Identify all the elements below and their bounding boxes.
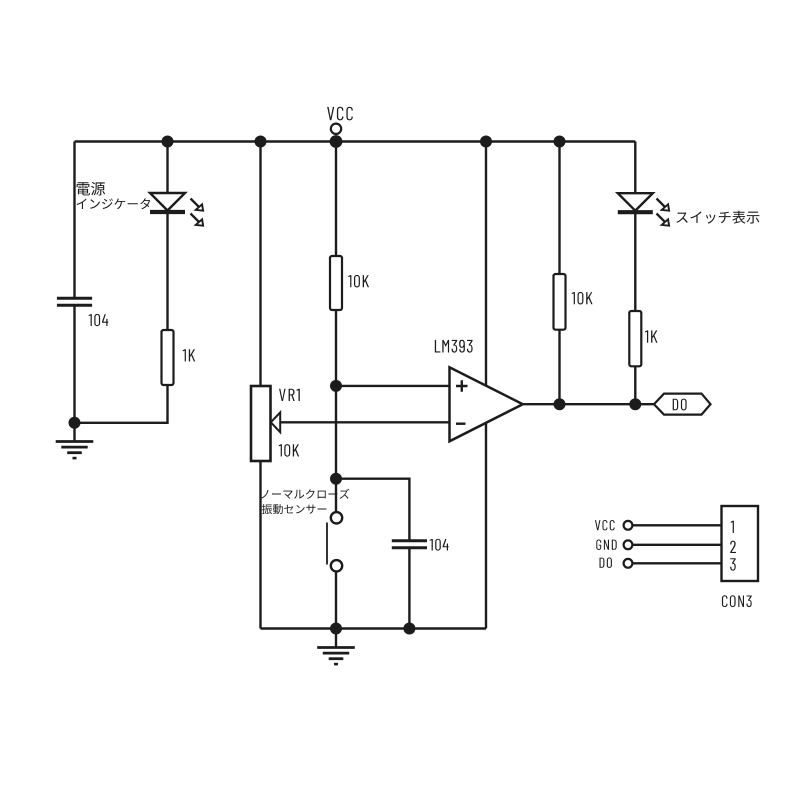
op-amp inverting (-) input mark bbox=[456, 423, 466, 425]
wire rail to VR1 top bbox=[259, 142, 261, 387]
potentiometer VR1 body bbox=[251, 386, 271, 461]
wire rail to R2 top bbox=[335, 142, 337, 257]
pin circle DO bbox=[624, 559, 633, 568]
wire C2 bottom to bottom rail bbox=[408, 548, 410, 629]
wire ground stub bottom bbox=[335, 629, 337, 648]
node junction rail-LED1 bbox=[162, 136, 174, 148]
pin circle GND bbox=[624, 540, 633, 549]
wire LED1 anode (rail to D1) bbox=[166, 142, 168, 195]
ref label LM393 (U1) bbox=[435, 340, 473, 353]
capacitor C2 (104) bbox=[392, 539, 427, 542]
ref label VR1 bbox=[279, 389, 300, 401]
pin label VCC (CON3 pin1) bbox=[595, 520, 615, 530]
wire R3 bottom to output node bbox=[558, 330, 560, 405]
LED D1 light arrows bbox=[191, 199, 200, 208]
value label 10K (VR1) bbox=[279, 444, 299, 457]
pin circle VCC bbox=[624, 521, 633, 530]
LED D2 switch indicator bbox=[618, 193, 653, 211]
wire VCC power rail (top) bbox=[75, 140, 636, 142]
value label 104 (C1) bbox=[89, 314, 109, 326]
vibration sensor SW1 bottom contact bbox=[331, 560, 342, 571]
node junction rail-VR1 bbox=[255, 136, 267, 148]
vibration sensor SW1 lever bbox=[326, 523, 328, 565]
pin label DO (CON3 pin3) bbox=[600, 558, 612, 568]
value label 1K (R4) bbox=[645, 330, 657, 342]
wire D2 cathode to R4 bbox=[634, 214, 636, 311]
value label 1K (R1) bbox=[183, 349, 195, 361]
node junction rail-opamp bbox=[480, 136, 492, 148]
wire CON3 pin2 (GND) bbox=[633, 544, 722, 546]
node junction C2-ground bbox=[403, 623, 415, 635]
node junction rail-VCC bbox=[330, 135, 343, 148]
wire op-amp power (V+ to V-) bbox=[485, 142, 487, 629]
ground symbol bottom bbox=[317, 646, 355, 649]
resistor R3 10K bbox=[554, 274, 566, 330]
wire VR1 bottom to bottom rail bbox=[259, 461, 261, 629]
label 振動センサー (vibration sensor) bbox=[262, 504, 327, 514]
value label 10K (R2) bbox=[348, 275, 369, 288]
port tag DO (output) bbox=[654, 394, 711, 415]
label スイッチ表示 (switch indicator) bbox=[676, 211, 759, 224]
wire R1 bottom to ground node bbox=[75, 385, 168, 423]
power symbol VCC bbox=[331, 124, 341, 134]
wire LED2 anode (rail to D2) bbox=[634, 142, 636, 195]
wire R4 bottom to output node bbox=[634, 366, 636, 404]
node A (R2 / +input) bbox=[330, 380, 342, 392]
port label DO bbox=[673, 399, 687, 411]
wire left branch upper (rail to C1) bbox=[73, 142, 75, 298]
pin label GND (CON3 pin2) bbox=[596, 540, 616, 550]
potentiometer VR1 wiper arrow bbox=[271, 412, 280, 432]
node junction sensor-ground bbox=[330, 623, 342, 635]
LED D2 light arrows bbox=[657, 199, 666, 208]
wire CON3 pin3 (DO) bbox=[633, 562, 722, 564]
ref label CON3 bbox=[722, 595, 752, 607]
wire node A to node B bbox=[335, 386, 337, 479]
wire VR1 wiper to inverting input bbox=[280, 421, 450, 423]
wire sensor bottom to bottom rail bbox=[335, 572, 337, 629]
wire CON3 pin1 (VCC) bbox=[633, 524, 722, 526]
LED D1 power indicator bbox=[150, 193, 185, 211]
wire op-amp non-inverting input bbox=[336, 385, 450, 387]
wire rail to R3 top bbox=[558, 142, 560, 275]
vibration sensor SW1 top contact bbox=[331, 512, 342, 523]
op-amp non-inverting (+) input mark bbox=[456, 380, 468, 392]
wire bottom ground rail bbox=[261, 627, 487, 629]
pin number 1 bbox=[731, 521, 734, 533]
wire ground stub left bbox=[73, 423, 75, 442]
wire node B to sensor top bbox=[335, 479, 337, 512]
connector CON3 body bbox=[722, 506, 759, 581]
node junction rail-R3 bbox=[554, 136, 566, 148]
node ground junction left bbox=[69, 417, 81, 429]
pin number 3 bbox=[730, 558, 736, 570]
label インジケータ (indicator) bbox=[77, 198, 151, 209]
resistor R1 1K bbox=[162, 330, 174, 385]
pin number 2 bbox=[730, 541, 736, 553]
resistor R4 1K bbox=[629, 311, 641, 366]
label 電源 (power) bbox=[77, 182, 106, 196]
wire left branch lower (C1 to ground node) bbox=[73, 306, 75, 423]
wire node B to C2 top bbox=[336, 479, 409, 540]
value label 104 (C2) bbox=[430, 539, 449, 551]
capacitor C1 (104) bbox=[57, 297, 92, 300]
label VCC (power net) bbox=[327, 107, 353, 121]
ground symbol left bbox=[56, 440, 94, 443]
wire D1 cathode to R1 bbox=[166, 214, 168, 330]
op-amp U1 LM393 body bbox=[450, 367, 523, 441]
value label 10K (R3) bbox=[572, 292, 593, 305]
wire op-amp output bbox=[522, 403, 654, 405]
node output-R3 bbox=[554, 398, 566, 410]
node B (sensor / C2) bbox=[330, 473, 342, 485]
node output-R4-DO bbox=[629, 398, 641, 410]
label ノーマルクローズ (normally closed) bbox=[261, 489, 349, 499]
wire R2 bottom to node A bbox=[335, 310, 337, 386]
resistor R2 10K bbox=[330, 256, 342, 310]
